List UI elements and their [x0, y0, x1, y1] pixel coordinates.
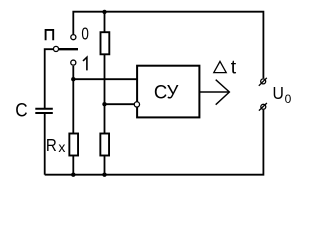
svg-text:x: x: [58, 139, 65, 155]
svg-text:0: 0: [285, 92, 292, 106]
svg-text:СУ: СУ: [154, 82, 179, 104]
svg-text:U: U: [273, 83, 284, 103]
svg-text:t: t: [231, 56, 237, 78]
svg-text:0: 0: [81, 25, 89, 44]
svg-text:C: C: [15, 98, 27, 120]
svg-text:R: R: [46, 135, 57, 156]
